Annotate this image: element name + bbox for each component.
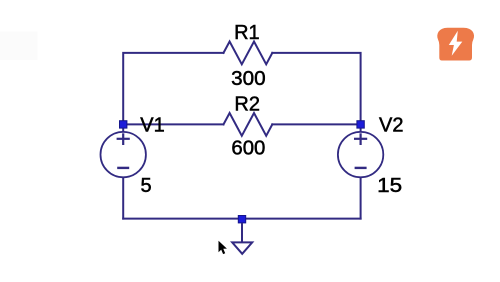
svg-text:300: 300 (231, 68, 266, 90)
node at ground (238, 216, 245, 223)
mouse cursor (219, 241, 227, 254)
V2 minus sign (355, 167, 367, 169)
svg-text:15: 15 (377, 175, 402, 197)
wire V1 top stub (122, 128, 124, 131)
svg-text:R1: R1 (234, 22, 260, 44)
svg-text:600: 600 (231, 137, 265, 159)
wire V2 top stub (360, 128, 362, 131)
ground (232, 223, 252, 254)
svg-text:R2: R2 (234, 93, 260, 115)
wire middle-right (272, 123, 357, 125)
V1 minus sign (117, 167, 129, 169)
wire top-left vertical (123, 53, 223, 121)
svg-text:V1: V1 (140, 115, 164, 137)
wire below V2 (360, 178, 362, 219)
node at V1 top (120, 121, 127, 128)
app icon (bread slice) (437, 28, 474, 61)
lightning bolt (449, 31, 463, 56)
svg-text:5: 5 (141, 175, 152, 197)
wire below V1 (122, 178, 124, 219)
faint panel top-left (0, 32, 38, 61)
V2 plus sign (354, 133, 367, 145)
node at V2 top (357, 121, 364, 128)
wire middle-left (127, 123, 224, 125)
svg-text:V2: V2 (379, 115, 403, 137)
wire bottom (123, 218, 360, 220)
V1 plus sign (117, 133, 130, 145)
voltage source V2 circle (338, 132, 383, 177)
resistor R2 (224, 113, 273, 136)
wire top-right (272, 53, 360, 121)
resistor R1 (224, 42, 273, 65)
voltage source V1 circle (101, 132, 146, 177)
